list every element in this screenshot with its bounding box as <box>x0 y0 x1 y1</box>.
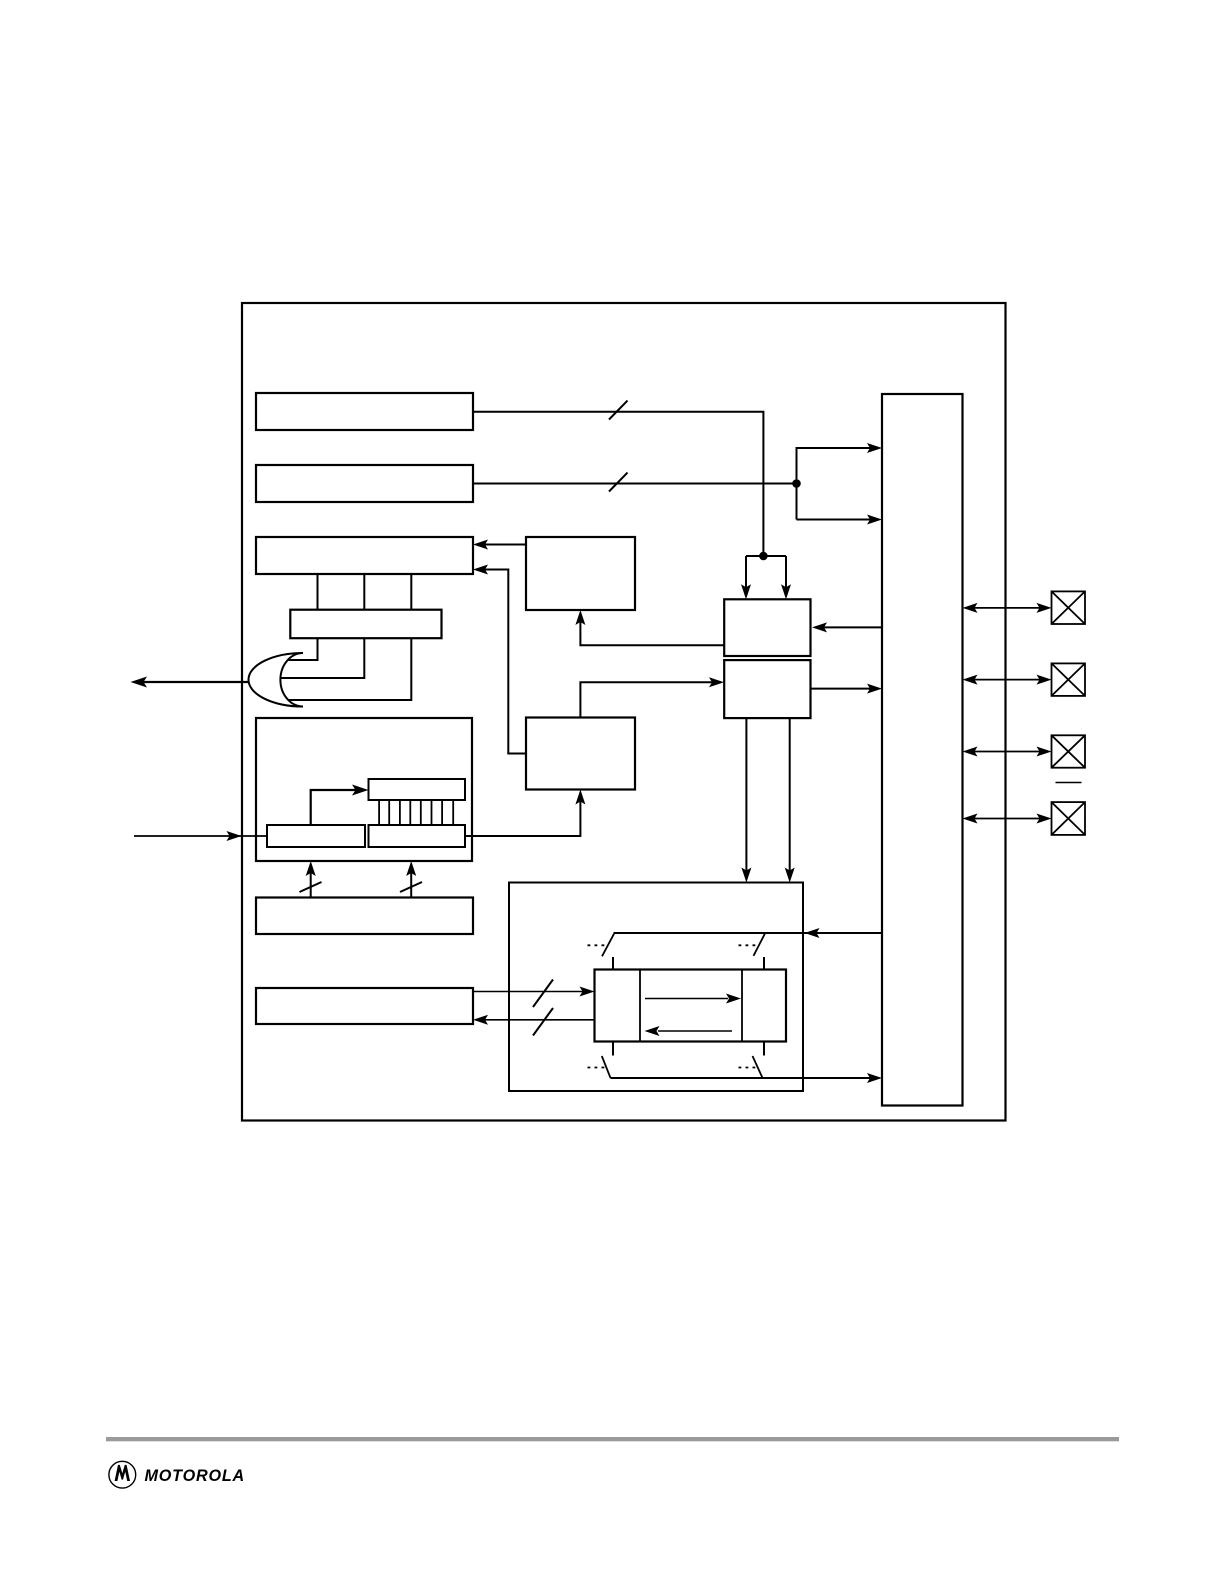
wire B1 to vertical drop <box>473 412 763 554</box>
wire status register down to sync box (right) <box>789 718 791 879</box>
register box B5 (data register) <box>256 988 473 1024</box>
arrow down into sync box left <box>741 868 751 883</box>
arrow into B5 <box>473 1015 488 1025</box>
control box B (receiver control) <box>526 718 635 790</box>
wire status register to tall box <box>811 688 871 690</box>
bottom tap stub right <box>763 1042 765 1056</box>
Motorola batwing M <box>115 1465 130 1481</box>
bottom tap switch right slash <box>753 1056 763 1078</box>
bus slash on B1 wire <box>609 401 628 420</box>
pad X3 <box>1052 735 1086 767</box>
arrow up into baud box right <box>406 861 416 876</box>
junction dot under B1 drop <box>759 552 768 561</box>
bottom tap switch left slash <box>602 1056 611 1078</box>
stacked box lower (status register) <box>724 660 810 718</box>
tap comb lines <box>379 800 453 825</box>
arrow into tall box upper <box>867 443 882 453</box>
interrupt output wire <box>143 681 249 683</box>
pad X2 bidirectional wire <box>966 679 1048 681</box>
arrow up into boxB <box>575 790 585 805</box>
pad X1 bidirectional wire <box>966 607 1048 609</box>
shift register cell divider left <box>639 970 641 1042</box>
pad X2 <box>1052 663 1086 696</box>
pad X4 <box>1052 802 1086 835</box>
arrow down into control register right <box>781 584 791 599</box>
bottom tap switch left dots <box>588 1067 607 1069</box>
wire status register down to sync box (left) <box>745 718 747 879</box>
overbar of pad-4 signal name <box>1056 782 1082 784</box>
bottom tap switch right dots <box>739 1067 758 1069</box>
junction dot on B2 wire <box>792 479 801 488</box>
wire prescaler to tap select <box>311 790 356 825</box>
wire tall box to control register right <box>824 626 882 628</box>
register box B3 <box>256 537 473 574</box>
clock input wire <box>134 835 267 837</box>
wire B5 to shift register <box>473 991 591 993</box>
wire split bar to control register <box>746 556 786 596</box>
bus slash on B4 left arrow <box>300 882 322 892</box>
wire shift register to B5 <box>477 1019 595 1021</box>
vertical taps B3 to status logic <box>318 574 412 610</box>
tap select box <box>369 779 466 800</box>
pad X1 <box>1052 591 1086 624</box>
wire boxB to B3 <box>476 570 526 754</box>
arrow into tall box from status register <box>867 684 882 694</box>
wire divider out to boxB <box>465 793 580 836</box>
interrupt output arrow <box>131 677 148 688</box>
bus slash on B5 out wire <box>533 980 553 1008</box>
arrow into B3 (from boxB) <box>473 565 488 575</box>
wire boxB to status register <box>580 682 721 717</box>
arrow into shift register <box>580 987 595 997</box>
arrow into B3 (from boxA) <box>473 540 488 550</box>
divider sub-box <box>369 825 466 847</box>
pad X4 bidirectional wire <box>966 818 1048 820</box>
shift left arrow (internal) <box>658 1030 732 1032</box>
shift register box <box>595 970 787 1042</box>
sync logic container box <box>509 883 803 1092</box>
arrow up into baud box left <box>306 861 316 876</box>
arrow into sync box right edge <box>805 928 820 938</box>
arrow into tall box lower <box>867 515 882 525</box>
top tap switch right dots <box>739 944 758 946</box>
register box B4 <box>256 898 473 935</box>
arrow into status register left <box>709 677 724 687</box>
bus slash on B4 right arrow <box>400 882 422 892</box>
OR gate (interrupt request) <box>248 653 303 707</box>
top tap switch left dots <box>588 944 607 946</box>
wire B4 up to baud box (right) <box>410 865 412 898</box>
arrow into tap select <box>352 785 369 796</box>
arrow into tall box bottom <box>867 1073 882 1083</box>
tap to OR input 1 <box>284 638 318 660</box>
svg-text:MOTOROLA: MOTOROLA <box>145 1467 246 1485</box>
arrow into control register right edge <box>812 622 827 632</box>
clock input arrow at border <box>227 831 242 841</box>
wire control register to boxA <box>580 613 724 645</box>
bus slash on B2 wire <box>609 473 628 492</box>
stacked box upper (control register) <box>724 599 810 656</box>
status logic box <box>290 610 441 639</box>
shift register cell divider right <box>741 970 743 1042</box>
wire boxA to B3 <box>476 544 526 546</box>
bottom tap stub left <box>612 1042 614 1056</box>
wire B2 to junction <box>473 483 797 485</box>
arrow up into boxA <box>575 610 585 625</box>
register box B2 <box>256 465 473 502</box>
control box A (transmitter control) <box>526 537 635 610</box>
top tap stub left <box>612 957 614 970</box>
arrow down into control register left <box>741 584 751 599</box>
register box B1 (top left) <box>256 393 473 430</box>
wire tall box into sync box top tap line <box>614 932 883 934</box>
outer module border <box>242 303 1006 1121</box>
wire junction to tall box (two branches) <box>797 448 871 520</box>
shift right arrow (internal) <box>645 998 728 1000</box>
baud rate generator outer box <box>256 718 472 861</box>
prescaler sub-box <box>267 825 365 847</box>
tap to OR input 2 <box>281 638 364 678</box>
wire sync box bottom tap line to tall box <box>611 1077 871 1079</box>
footer rule <box>106 1437 1119 1441</box>
bus slash on B5 in wire <box>533 1008 553 1036</box>
top tap switch right slash <box>754 934 765 956</box>
tall pin-control box <box>882 394 963 1106</box>
top tap stub right <box>763 957 765 970</box>
tap to OR input 3 <box>288 638 411 700</box>
Motorola logo circle <box>109 1461 136 1488</box>
pad X3 bidirectional wire <box>966 751 1048 753</box>
wire B4 up to baud box (left) <box>310 865 312 898</box>
arrow down into sync box right <box>785 868 795 883</box>
top tap switch left slash <box>602 934 614 957</box>
